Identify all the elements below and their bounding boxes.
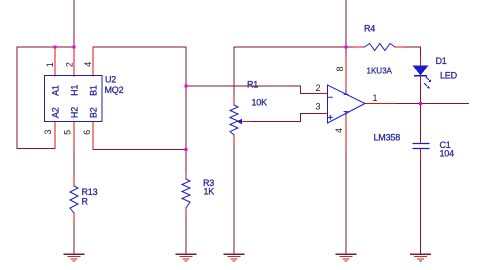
potentiometer R1 wiper lead — [243, 121, 252, 123]
resistor R3 top lead — [185, 173, 187, 179]
svg-text:104: 104 — [440, 149, 455, 159]
wire pin4 to R3 top horizontal — [93, 46, 186, 48]
svg-text:A1: A1 — [51, 85, 61, 96]
svg-text:6: 6 — [82, 130, 92, 135]
ground symbol below C1 — [410, 254, 431, 261]
svg-text:H2: H2 — [70, 107, 80, 118]
op-amp pin 3 lead — [322, 113, 328, 115]
wire inverting input net (pin2) — [186, 86, 321, 94]
wire top net R1 to R4 horizontal — [234, 46, 354, 48]
resistor R4 right lead — [395, 46, 404, 48]
wire R3 net vertical — [185, 47, 187, 173]
ground symbol below op-amp pin4 — [336, 254, 357, 261]
potentiometer R1 wiper arrow — [237, 119, 242, 124]
wire output net horizontal — [395, 103, 469, 105]
op-amp pin 1 output lead — [365, 103, 395, 105]
wire op-amp pin8 upper segment — [345, 47, 347, 57]
svg-text:U2: U2 — [105, 75, 116, 85]
LED D1 cathode lead — [420, 76, 422, 83]
wire R1 bottom to ground — [233, 143, 235, 254]
resistor R4 zigzag — [365, 44, 396, 51]
svg-text:3: 3 — [43, 129, 53, 134]
ground symbol below R1 — [224, 254, 245, 261]
resistor R13 bottom lead — [73, 213, 75, 221]
op-amp V- pin tick — [344, 112, 348, 116]
LED D1 emission arrows — [424, 77, 431, 89]
svg-text:H1: H1 — [70, 85, 80, 96]
wire LED cathode down to output — [420, 83, 422, 104]
capacitor C1 bottom lead — [420, 149, 422, 158]
resistor R3 bottom lead — [185, 208, 187, 214]
IC U2 pin 4 lead — [92, 47, 94, 76]
svg-text:3: 3 — [316, 102, 321, 112]
IC U2 pin 5 lead — [73, 122, 75, 151]
op-amp minus mark — [329, 96, 333, 98]
svg-text:1: 1 — [45, 62, 55, 67]
svg-text:R4: R4 — [364, 24, 375, 34]
junction node pin1/top net — [54, 46, 57, 49]
potentiometer R1 zigzag — [230, 105, 238, 135]
IC U2 pin 1 lead — [54, 47, 56, 76]
resistor R13 zigzag — [70, 186, 78, 213]
IC U2 body — [45, 76, 103, 122]
svg-text:5: 5 — [63, 130, 73, 135]
op-amp pin 2 lead — [321, 93, 328, 95]
svg-text:R13: R13 — [82, 187, 98, 197]
svg-text:LM358: LM358 — [374, 133, 401, 143]
wire R13 top segment — [73, 150, 75, 177]
svg-text:1: 1 — [373, 93, 378, 103]
svg-text:R1: R1 — [247, 80, 258, 90]
svg-text:1K: 1K — [204, 187, 215, 197]
svg-text:4: 4 — [334, 128, 344, 133]
svg-text:B2: B2 — [89, 107, 99, 118]
wire C1 top segment — [420, 104, 422, 140]
op-amp U3A triangle — [328, 85, 366, 123]
wire op-amp pin4 to ground — [345, 150, 347, 254]
ground symbol below R3 — [176, 254, 197, 261]
svg-text:B1: B1 — [89, 85, 99, 96]
LED D1 body — [414, 66, 428, 76]
wire pin6 horizontal — [93, 149, 186, 151]
resistor R4 left lead — [354, 46, 365, 48]
potentiometer R1 top lead — [233, 97, 235, 105]
junction node pin2/top net — [73, 46, 76, 49]
wire R1 top vertical — [233, 47, 235, 97]
capacitor C1 top lead — [420, 140, 422, 144]
wire wiper to pin3 net — [252, 114, 323, 122]
svg-text:4: 4 — [83, 62, 93, 67]
wire bottom-left horizontal to pin3 — [17, 148, 55, 150]
svg-text:8: 8 — [335, 66, 345, 71]
wire left loop vertical — [16, 47, 18, 149]
IC U2 pin 6 lead — [92, 122, 94, 150]
op-amp pin 4 lead — [345, 114, 347, 150]
junction node R3 net/pin2 branch — [185, 85, 188, 88]
junction node LED/output — [419, 102, 422, 105]
svg-text:2: 2 — [316, 83, 321, 93]
svg-text:LED: LED — [440, 71, 458, 81]
capacitor C1 plates — [413, 144, 429, 149]
svg-text:2: 2 — [65, 62, 75, 67]
LED D1 anode lead — [420, 58, 422, 66]
svg-text:1KU3A: 1KU3A — [367, 66, 393, 75]
op-amp V+ pin tick — [344, 91, 348, 95]
IC U2 pin 3 lead — [54, 122, 56, 149]
IC U2 pin 2 lead — [73, 47, 75, 76]
wire top-left horizontal net — [17, 46, 74, 48]
wire VCC supply left vertical — [73, 0, 75, 47]
svg-text:A2: A2 — [51, 107, 61, 118]
wire R3 bottom to ground — [185, 214, 187, 254]
wire R4 right to LED corner — [405, 47, 421, 58]
wire R13 bottom to ground — [73, 221, 75, 254]
potentiometer R1 bottom lead — [233, 135, 235, 143]
resistor R13 top lead — [73, 177, 75, 186]
resistor R3 zigzag — [182, 179, 190, 208]
svg-text:D1: D1 — [436, 56, 447, 66]
wire C1 bottom to ground — [420, 158, 422, 254]
junction node pin6/R3 — [185, 148, 188, 151]
ground symbol below R13 — [64, 254, 85, 261]
op-amp pin 8 lead — [345, 57, 347, 94]
svg-text:MQ2: MQ2 — [105, 85, 124, 95]
wire VCC supply right vertical — [345, 0, 347, 47]
svg-text:10K: 10K — [252, 98, 268, 108]
svg-text:R: R — [82, 197, 89, 207]
junction node VCC/R4 — [345, 46, 348, 49]
op-amp plus mark — [328, 115, 332, 119]
